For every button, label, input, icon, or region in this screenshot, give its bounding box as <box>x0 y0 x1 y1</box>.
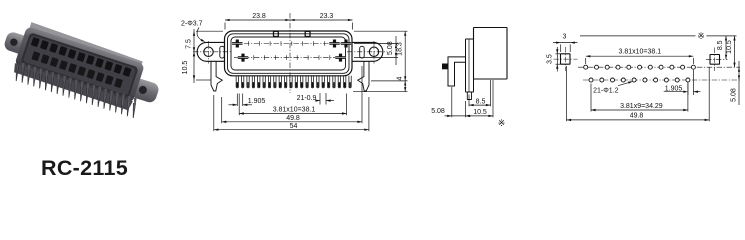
front view: end contacts <box>232 40 242 48</box>
svg-text:4: 4 <box>397 77 404 81</box>
svg-text:3.81x10=38.1: 3.81x10=38.1 <box>618 48 661 55</box>
right mounting ear (photo) <box>129 77 160 104</box>
front view: pin comb <box>236 76 238 88</box>
connector top face (photo) <box>29 22 143 65</box>
svg-text:10.5: 10.5 <box>726 40 733 54</box>
front view: right board lock leg <box>358 61 369 91</box>
dimension 49.8 (front) <box>221 97 223 123</box>
svg-text:5.08: 5.08 <box>731 88 738 102</box>
svg-text:21-Φ1.2: 21-Φ1.2 <box>593 88 619 95</box>
front view: contact tick marks <box>247 41 249 46</box>
connector body (photo) <box>14 26 145 103</box>
svg-text:23.3: 23.3 <box>320 13 334 20</box>
dimension 18.3 <box>354 30 408 32</box>
side view: flange strip <box>466 39 474 92</box>
dimension 7.5 / 10.5 (left) <box>193 29 195 83</box>
side view: body <box>474 28 508 80</box>
side view: board lock bracket <box>448 57 466 86</box>
dimension 3.5 <box>556 47 558 72</box>
svg-text:23.8: 23.8 <box>252 13 266 20</box>
svg-text:18.3: 18.3 <box>397 42 404 56</box>
footprint: hole rows <box>578 66 740 68</box>
svg-text:21-0.9: 21-0.9 <box>297 95 317 102</box>
svg-text:49.8: 49.8 <box>630 113 644 120</box>
svg-text:2-Φ3.7: 2-Φ3.7 <box>181 21 203 28</box>
svg-text:RC-2115: RC-2115 <box>41 156 128 179</box>
front view: right ear <box>352 42 383 61</box>
svg-text:※: ※ <box>498 118 506 128</box>
dimension 3.81x10=38.1 (footprint) <box>585 58 587 64</box>
side view: pin <box>467 92 471 100</box>
contact holes (photo) <box>31 37 40 47</box>
svg-text:5.08: 5.08 <box>431 108 445 115</box>
svg-text:5.08: 5.08 <box>387 41 394 55</box>
front view: contact row centerlines <box>234 43 343 45</box>
front view: left board lock leg <box>211 61 222 91</box>
svg-text:3.81x10=38.1: 3.81x10=38.1 <box>273 107 316 114</box>
dimension 4 <box>353 91 408 93</box>
reference mark (footprint) <box>696 31 707 41</box>
svg-text:7.5: 7.5 <box>186 39 193 49</box>
dimension 8.5 (footprint) <box>725 36 727 59</box>
dimension 1.905 (front bottom) <box>236 94 238 107</box>
dimension 23.8 / 23.3 (top) <box>225 19 353 21</box>
front view: vertical centerline <box>289 13 291 93</box>
body underside (photo) <box>12 63 133 111</box>
svg-text:1.905: 1.905 <box>248 98 266 105</box>
dimension 10.5 (side) <box>465 101 467 117</box>
dimension 3.81x9=34.29 <box>590 84 592 112</box>
front view: top tabs <box>274 31 279 36</box>
footprint: left pad <box>561 54 571 64</box>
footprint: datum line <box>580 35 737 37</box>
front view: body outline <box>225 31 353 76</box>
svg-text:54: 54 <box>290 123 298 130</box>
svg-text:10.5: 10.5 <box>182 61 189 75</box>
svg-text:8.5: 8.5 <box>476 98 486 105</box>
svg-text:10.5: 10.5 <box>473 109 487 116</box>
dimension 5.08 (side) <box>451 87 453 117</box>
svg-text:3.81x9=34.29: 3.81x9=34.29 <box>620 103 663 110</box>
svg-text:3: 3 <box>563 34 567 41</box>
footprint: right pad <box>710 55 720 65</box>
ear hole centerlines <box>193 51 231 53</box>
svg-text:3.5: 3.5 <box>547 54 554 64</box>
pin field (photo) <box>16 66 19 81</box>
dimension 10.5 (footprint) <box>734 36 736 67</box>
svg-text:49.8: 49.8 <box>286 115 300 122</box>
dimension 3.81x10=38.1 (front) <box>238 94 240 116</box>
dimension 54 (front) <box>213 95 215 131</box>
dimension 5.08 (front right) <box>354 43 398 45</box>
dimension 49.8 (footprint) <box>566 66 568 121</box>
left mounting ear (photo) <box>3 31 31 56</box>
svg-text:8.5: 8.5 <box>717 40 724 50</box>
svg-text:※: ※ <box>697 31 705 41</box>
front view: left ear <box>197 42 224 61</box>
dimension 8.5 (side) <box>468 95 470 107</box>
dimension 5.08 (footprint) <box>738 61 740 105</box>
